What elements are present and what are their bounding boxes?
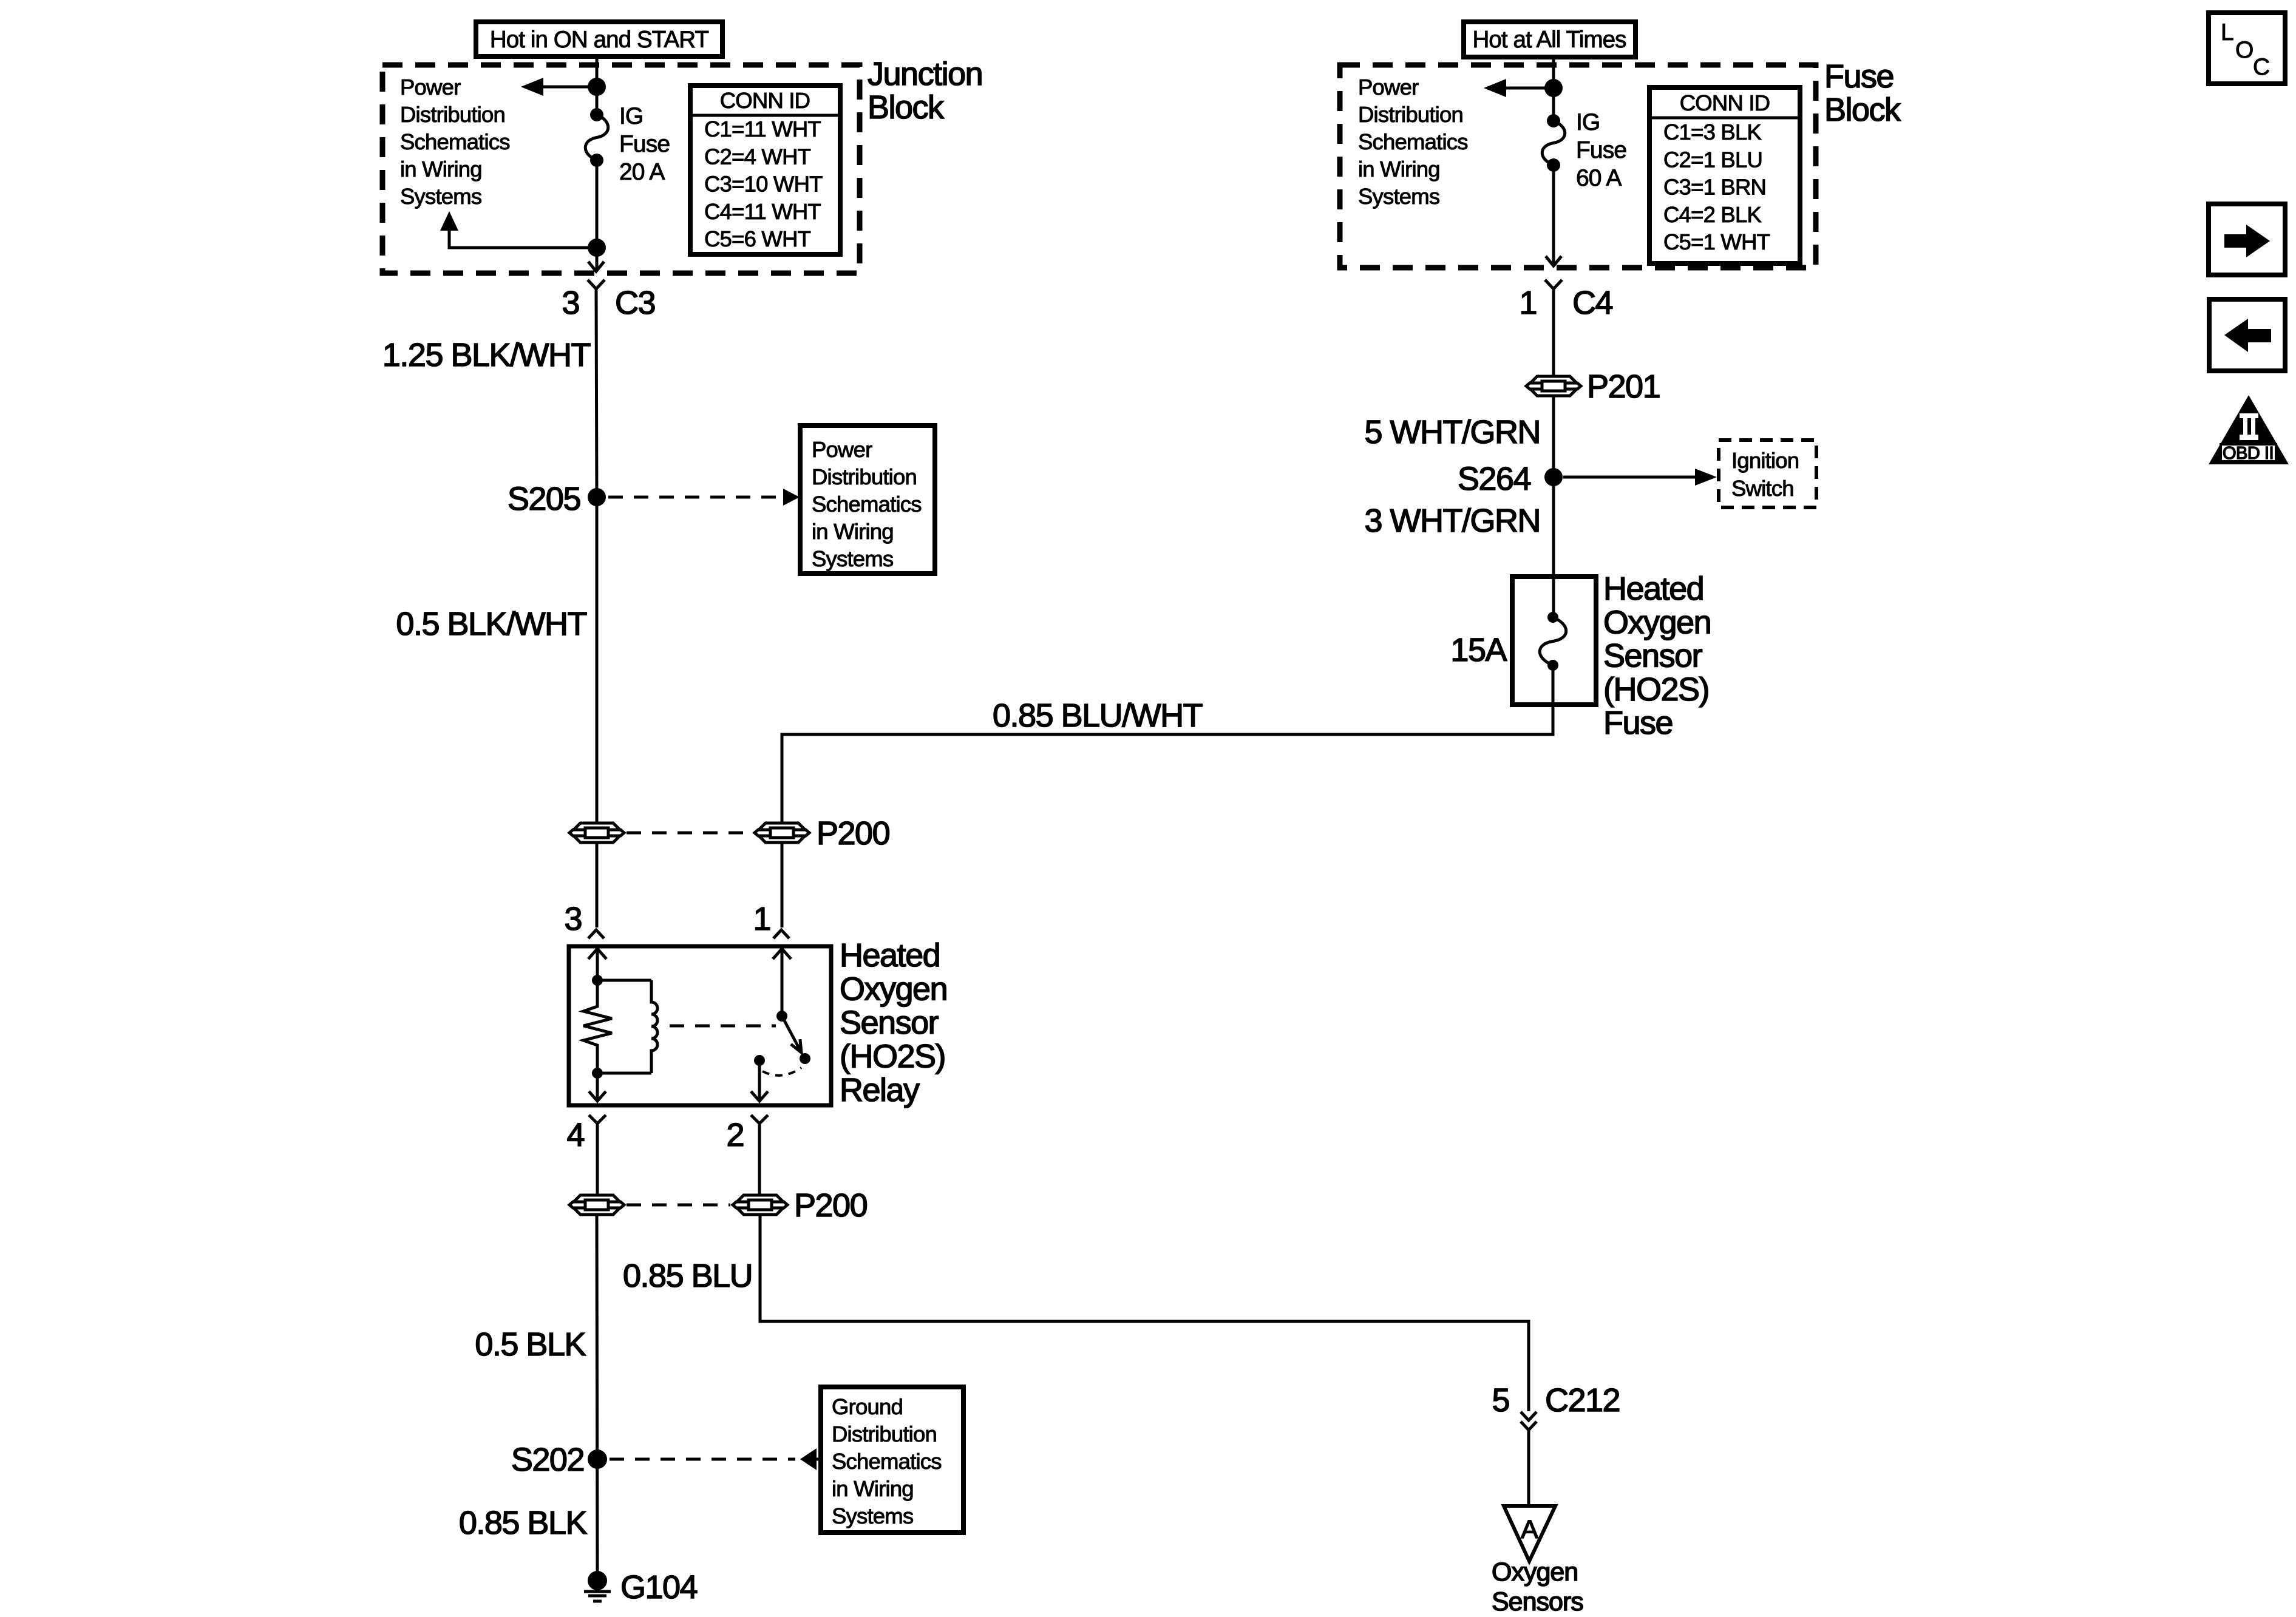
wire from Hot box into fuse block <box>1552 57 1555 88</box>
dashed link P200 lower <box>627 1204 730 1207</box>
svg-text:C4: C4 <box>1572 285 1612 321</box>
relay pin 1 chevron <box>773 930 789 938</box>
relay node dot lower <box>592 1068 603 1079</box>
connector C4 chevron <box>1545 280 1562 289</box>
LOC icon box <box>2209 13 2285 84</box>
OBD II triangle icon <box>2209 395 2289 464</box>
relay coil-side entry arrow (pin 3) <box>588 949 606 980</box>
relay switch contact dot <box>800 1053 810 1064</box>
dashed reference S205 to power distribution box <box>608 489 800 506</box>
branch arrow left (fuse block) <box>1484 79 1554 97</box>
svg-text:Hot in ON and START: Hot in ON and START <box>490 27 709 53</box>
label box "Hot in ON and START" <box>476 22 722 56</box>
down arrow to block edge <box>588 248 604 271</box>
svg-text:CONN ID: CONN ID <box>720 88 810 113</box>
junction block dashed box <box>382 65 860 273</box>
splice S202 dot <box>588 1449 607 1469</box>
arrow S264 to ignition switch <box>1563 469 1717 486</box>
svg-text:S264: S264 <box>1458 461 1531 497</box>
wire to IG fuse <box>1552 88 1555 121</box>
dashed link P200 upper <box>627 832 752 835</box>
wire P201 to S264 <box>1552 396 1555 477</box>
connector P200 upper left grommet <box>569 823 624 842</box>
svg-text:4: 4 <box>566 1117 584 1153</box>
relay HO2S box <box>569 946 831 1105</box>
svg-text:C3: C3 <box>615 285 655 321</box>
ground G104 symbol <box>584 1571 611 1601</box>
off-page triangle A <box>1504 1506 1555 1561</box>
right arrow icon box <box>2209 204 2285 275</box>
dashed reference S202 to ground distribution box <box>610 1448 821 1470</box>
connector P200 lower left grommet <box>569 1195 624 1215</box>
relay coil branch bottom wire <box>597 1072 651 1075</box>
wire pin 2 to P200 lower <box>758 1124 761 1195</box>
ignition switch dashed box <box>1719 440 1816 507</box>
splice S205 dot <box>588 488 606 506</box>
svg-text:OBD II: OBD II <box>2223 444 2274 463</box>
junction node dot lower <box>588 239 606 257</box>
svg-text:C1=11 WHTC2=4 WHTC3=10 WHTC4=1: C1=11 WHTC2=4 WHTC3=10 WHTC4=11 WHTC5=6 … <box>704 117 823 251</box>
svg-text:C: C <box>2253 54 2269 80</box>
svg-text:Hot at All Times: Hot at All Times <box>1472 27 1626 53</box>
loop-back branch arrow up <box>440 211 597 248</box>
fuse IG 20 A symbol <box>585 108 608 167</box>
svg-text:0.85 BLU/WHT: 0.85 BLU/WHT <box>993 697 1203 734</box>
wire C212 to oxygen sensors <box>1527 1430 1530 1505</box>
relay switch arm with arrowhead <box>782 1016 801 1053</box>
svg-text:3: 3 <box>562 285 579 321</box>
relay pin 3 chevron <box>588 930 604 938</box>
fuse IG 60 A symbol <box>1542 114 1565 172</box>
CONN ID table (junction block) <box>690 86 840 254</box>
relay switch entry arrow (pin 1) <box>773 949 791 1016</box>
svg-text:OxygenSensors: OxygenSensors <box>1492 1558 1583 1616</box>
relay coil-side exit arrow (pin 4) <box>589 1073 606 1101</box>
relay coil branch top wire <box>597 979 651 982</box>
connector P200 upper right grommet <box>755 823 809 842</box>
svg-text:5 WHT/GRN: 5 WHT/GRN <box>1365 414 1541 450</box>
CONN ID table (fuse block) <box>1649 87 1800 263</box>
svg-text:15A: 15A <box>1450 632 1507 668</box>
svg-text:A: A <box>1521 1515 1538 1544</box>
wire S264 to HO2S fuse <box>1552 477 1555 617</box>
fuse block dashed box <box>1340 65 1816 268</box>
svg-text:S202: S202 <box>511 1442 584 1478</box>
svg-text:P201: P201 <box>1587 368 1660 405</box>
wire C4 to P201 <box>1552 289 1555 376</box>
relay node dot upper <box>592 975 603 986</box>
wire pin 4 to P200 lower <box>596 1124 599 1195</box>
fuse block node dot <box>1544 79 1563 97</box>
wire from fuse to lower junction dot <box>596 160 599 248</box>
splice S264 dot <box>1544 468 1563 486</box>
fuse HO2S 15A symbol <box>1540 612 1566 671</box>
svg-text:L: L <box>2221 19 2233 46</box>
svg-text:0.5 BLK: 0.5 BLK <box>475 1326 586 1363</box>
svg-text:G104: G104 <box>620 1569 698 1605</box>
relay dashed travel arc <box>763 1068 801 1076</box>
relay pin 4 chevron <box>589 1115 606 1124</box>
relay pin 2 chevron <box>751 1115 768 1124</box>
HO2S fuse box <box>1512 577 1596 705</box>
svg-text:C1=3 BLKC2=1 BLUC3=1 BRNC4=2 B: C1=3 BLKC2=1 BLUC3=1 BRNC4=2 BLKC5=1 WHT <box>1663 120 1770 254</box>
svg-text:5: 5 <box>1492 1382 1509 1419</box>
wire fuse to block edge with down arrow <box>1546 165 1561 266</box>
wire P200 down right to C212 <box>760 1215 1529 1411</box>
connector C3 chevron <box>588 280 605 289</box>
svg-text:C212: C212 <box>1545 1382 1620 1419</box>
connector C212 double chevron <box>1521 1412 1537 1430</box>
wire from Hot box into junction block <box>596 56 599 87</box>
relay coil <box>651 980 657 1073</box>
junction node dot <box>588 78 606 96</box>
svg-text:CONN ID: CONN ID <box>1680 90 1770 115</box>
svg-text:P200: P200 <box>817 815 889 852</box>
connector P201 grommet <box>1526 376 1581 396</box>
ground distribution schematics reference box <box>821 1387 963 1533</box>
relay dashed actuation link <box>670 1025 776 1028</box>
branch arrow left (junction block) <box>521 78 597 96</box>
connector P200 lower right grommet <box>733 1195 787 1215</box>
ground wire P200 to G104 <box>597 1215 597 1581</box>
label box "Hot at All Times" <box>1464 22 1635 57</box>
left arrow icon box <box>2209 299 2285 371</box>
svg-text:FuseBlock: FuseBlock <box>1824 58 1901 128</box>
wire S205 down to P200 <box>596 497 599 823</box>
svg-text:3 WHT/GRN: 3 WHT/GRN <box>1365 503 1541 539</box>
relay stationary contact dot <box>754 1055 765 1066</box>
svg-text:0.85 BLK: 0.85 BLK <box>459 1505 588 1541</box>
svg-text:3: 3 <box>564 901 582 937</box>
svg-text:P200: P200 <box>794 1187 867 1224</box>
wire P200 to relay pin 3 <box>596 843 599 927</box>
svg-text:1: 1 <box>1519 285 1537 321</box>
power distribution schematics reference box <box>800 425 935 574</box>
svg-text:2: 2 <box>726 1117 744 1153</box>
wire fuse down and left to P200 (0.85 BLU/WHT) <box>782 665 1553 823</box>
wire C3 down to S205 <box>596 289 597 497</box>
svg-text:1.25 BLK/WHT: 1.25 BLK/WHT <box>382 337 591 373</box>
svg-text:O: O <box>2235 37 2253 63</box>
svg-text:0.5 BLK/WHT: 0.5 BLK/WHT <box>396 606 586 642</box>
svg-text:S205: S205 <box>508 481 580 517</box>
relay resistor <box>583 980 612 1073</box>
svg-text:1: 1 <box>753 901 770 937</box>
relay switch pivot dot <box>776 1011 787 1022</box>
wire P200 to relay pin 1 <box>781 843 784 927</box>
svg-text:0.85 BLU: 0.85 BLU <box>623 1258 752 1294</box>
relay switch exit arrow (pin 2) <box>751 1060 768 1101</box>
wire to fuse <box>596 87 599 115</box>
